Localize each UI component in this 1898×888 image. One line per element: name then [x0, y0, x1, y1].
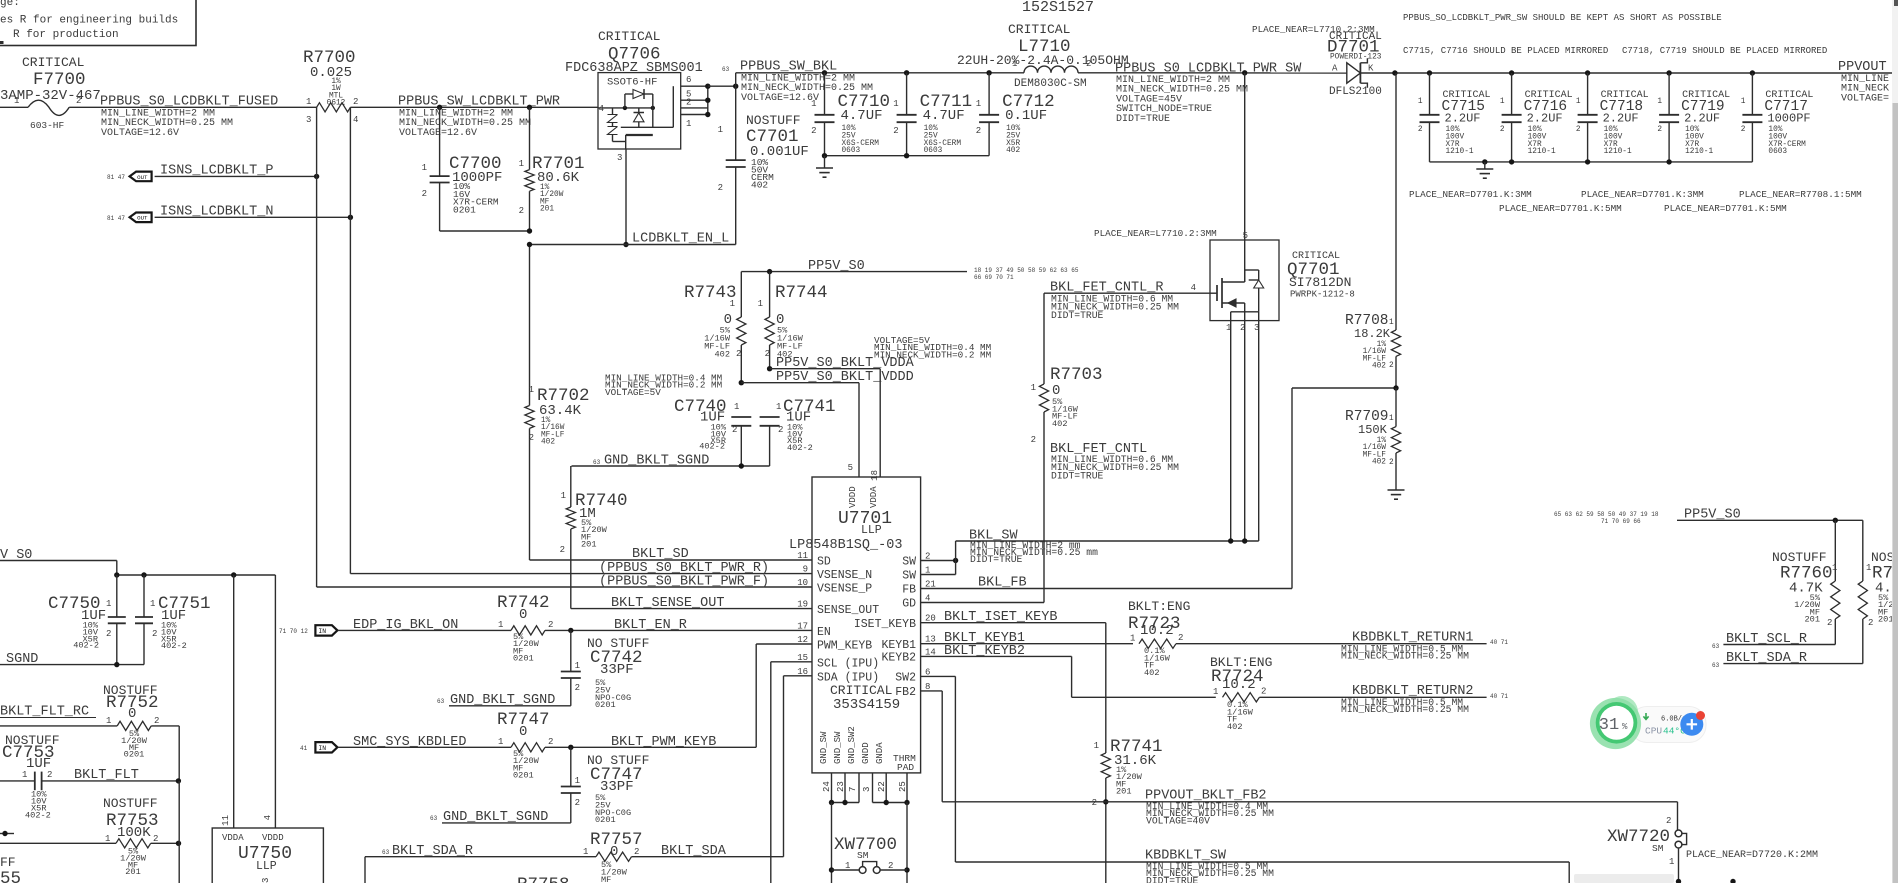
- capacitor C7740: [674, 397, 751, 466]
- net BKLT_SDA label: [661, 844, 727, 859]
- capacitor C7701: [718, 73, 809, 245]
- net BKLT_EN_R label: [614, 618, 687, 633]
- svg-text:A: A: [1332, 64, 1338, 74]
- resistor R7703: [1031, 293, 1103, 602]
- svg-text:81 47: 81 47: [107, 215, 125, 222]
- svg-text:1: 1: [1012, 59, 1017, 69]
- svg-text:PPBUS_S0_LCDBKLT_FUSED: PPBUS_S0_LCDBKLT_FUSED: [100, 95, 278, 110]
- svg-text:1: 1: [1389, 319, 1394, 327]
- resistor R7741: [1092, 623, 1163, 883]
- svg-text:GNDA: GNDA: [875, 742, 885, 764]
- svg-text:SD: SD: [817, 556, 831, 569]
- capacitor C7753: [0, 733, 181, 821]
- svg-text:SI7812DN: SI7812DN: [1289, 275, 1351, 290]
- svg-text:(PPBUS_S0_BKLT_PWR_F): (PPBUS_S0_BKLT_PWR_F): [599, 575, 769, 590]
- svg-text:C7715, C7716 SHOULD BE PLACED: C7715, C7716 SHOULD BE PLACED MIRRORED: [1403, 46, 1608, 56]
- svg-text:IN: IN: [318, 628, 326, 635]
- svg-text:18 19 37 49 50 58 59 62 63 65: 18 19 37 49 50 58 59 62 63 65: [974, 267, 1079, 274]
- svg-text:2: 2: [153, 834, 158, 844]
- svg-text:SM: SM: [1652, 843, 1664, 854]
- net BKLT_KEYB2: [921, 644, 1216, 697]
- svg-text:KEYB1: KEYB1: [881, 639, 916, 652]
- svg-text:1: 1: [1130, 634, 1135, 644]
- svg-text:1: 1: [106, 599, 111, 609]
- jumper XW7700: [829, 803, 910, 884]
- svg-text:10: 10: [797, 578, 808, 588]
- net BKLT_KEYB1: [921, 631, 1133, 646]
- svg-text:SSOT6-HF: SSOT6-HF: [607, 77, 657, 89]
- svg-text:2: 2: [1389, 362, 1394, 370]
- svg-text:402-2: 402-2: [787, 443, 813, 453]
- wire stub left U7750: [0, 831, 14, 836]
- svg-text:17: 17: [797, 621, 808, 631]
- svg-text:2: 2: [1086, 59, 1091, 69]
- net BKLT_SENSE_OUT: [571, 596, 812, 611]
- svg-text:1: 1: [561, 491, 566, 501]
- wire output caps bottom bus: [1430, 159, 1753, 164]
- ground below C7710: [816, 156, 833, 178]
- svg-text:1: 1: [1389, 415, 1394, 423]
- svg-text:4: 4: [263, 815, 273, 820]
- svg-text:GND_SW: GND_SW: [819, 731, 829, 764]
- wire vdd row: [114, 572, 275, 577]
- svg-text:1: 1: [1669, 857, 1674, 867]
- svg-text:FB2: FB2: [895, 686, 916, 699]
- svg-text:2: 2: [548, 620, 553, 630]
- capacitor C7741: [760, 397, 836, 466]
- capacitor C7750: [48, 575, 126, 665]
- svg-text:ge:: ge:: [0, 0, 20, 9]
- svg-text:R7758: R7758: [517, 875, 570, 883]
- svg-text:5: 5: [848, 463, 853, 473]
- capacitor C7747: [561, 747, 650, 825]
- svg-text:402-2: 402-2: [25, 811, 51, 821]
- svg-text:2: 2: [736, 349, 741, 359]
- svg-text:VDDD: VDDD: [262, 833, 284, 843]
- svg-text:2: 2: [1092, 798, 1097, 808]
- net GND_BKLT_SGND c7747: [430, 810, 571, 825]
- net PPBUS_S0_BKLT_PWR_F: [317, 575, 812, 590]
- capacitor C7718: [1576, 70, 1649, 162]
- svg-text:GND_BKLT_SGND: GND_BKLT_SGND: [604, 454, 709, 469]
- inductor L7710: [957, 22, 1129, 90]
- svg-text:SW: SW: [902, 556, 916, 569]
- svg-text:402: 402: [1227, 722, 1242, 732]
- svg-text:CPU: CPU: [1645, 726, 1662, 737]
- svg-text:2.2UF: 2.2UF: [1527, 112, 1563, 126]
- svg-text:BKLT_SDA_R: BKLT_SDA_R: [392, 844, 473, 859]
- net PPBUS_S0_LCDBKLT_FUSED label: [100, 95, 278, 139]
- svg-text:3: 3: [617, 153, 622, 163]
- svg-text:VOLTAGE=5V: VOLTAGE=5V: [605, 387, 661, 398]
- svg-text:DIDT=TRUE: DIDT=TRUE: [1051, 470, 1104, 481]
- svg-text:VSENSE_P: VSENSE_P: [817, 583, 872, 596]
- svg-text:40 71: 40 71: [1490, 639, 1508, 646]
- svg-text:63: 63: [593, 459, 601, 466]
- svg-text:3: 3: [862, 787, 872, 792]
- svg-text:2: 2: [686, 98, 691, 108]
- svg-text:18.2K: 18.2K: [1354, 327, 1391, 341]
- svg-text:1: 1: [893, 99, 898, 109]
- wire C7700-R7701 bottom: [440, 228, 533, 233]
- capacitor C7751: [135, 575, 211, 665]
- capacitor C7712: [976, 70, 1055, 156]
- capacitor C7717: [1741, 70, 1814, 162]
- svg-text:R7703: R7703: [1050, 365, 1103, 385]
- wire GD: [921, 602, 1044, 604]
- net BKLT_ISET_KEYB: [921, 610, 1106, 625]
- svg-text:2: 2: [1576, 126, 1581, 134]
- svg-text:0201: 0201: [595, 815, 616, 825]
- svg-text:15: 15: [797, 653, 808, 663]
- net PPBUS_SW_BKL label: [722, 60, 873, 104]
- net KBDBKLT_SW label: [1145, 849, 1274, 887]
- svg-text:2.2UF: 2.2UF: [1445, 112, 1481, 126]
- net BKLT_FLT label: [74, 768, 139, 783]
- resistor R7708: [1345, 70, 1401, 388]
- wire stub bottom right: [1730, 879, 1735, 884]
- svg-text:DIDT=TRUE: DIDT=TRUE: [970, 554, 1023, 565]
- svg-text:201: 201: [1805, 615, 1820, 625]
- svg-text:VOLTAGE=12.6V: VOLTAGE=12.6V: [101, 128, 179, 139]
- svg-text:PPBUS_SW_LCDBKLT_PWR: PPBUS_SW_LCDBKLT_PWR: [398, 95, 560, 110]
- wire PWM_KEYB to pin12: [756, 644, 812, 747]
- resistor R7701: [519, 105, 585, 231]
- svg-text:LLP: LLP: [256, 860, 277, 873]
- svg-text:PLACE_NEAR=L7710.2:3MM: PLACE_NEAR=L7710.2:3MM: [1094, 228, 1217, 239]
- svg-text:NOSTUFF: NOSTUFF: [746, 113, 801, 128]
- wire FB2 to PPVOUT_BKLT_FB2: [921, 691, 1678, 802]
- svg-text:353S4159: 353S4159: [833, 697, 900, 713]
- svg-text:2.2UF: 2.2UF: [1603, 112, 1639, 126]
- svg-text:18: 18: [870, 470, 880, 481]
- svg-text:402: 402: [1372, 459, 1386, 467]
- net BKLT_FLT_RC label: [0, 705, 96, 720]
- svg-text:16: 16: [797, 667, 808, 677]
- svg-text:GND_BKLT_SGND: GND_BKLT_SGND: [443, 810, 548, 825]
- svg-text:IN: IN: [318, 745, 326, 752]
- svg-text:4.7UF: 4.7UF: [923, 108, 965, 124]
- svg-text:1210-1: 1210-1: [1604, 148, 1632, 156]
- net BKL_FB: [921, 388, 1292, 591]
- svg-text:BKLT_FLT: BKLT_FLT: [74, 768, 139, 783]
- svg-text:VDDA: VDDA: [869, 486, 879, 508]
- wire ISNS_LCDBKLT_N: [155, 215, 353, 220]
- capacitor C7742: [561, 630, 650, 710]
- wire U7750 vddd: [274, 575, 276, 828]
- resistor R7702: [525, 245, 590, 561]
- svg-text:2: 2: [519, 206, 524, 216]
- svg-text:PLACE_NEAR=D7720.K:2MM: PLACE_NEAR=D7720.K:2MM: [1686, 850, 1818, 861]
- svg-text:1: 1: [1657, 98, 1662, 106]
- svg-text:BKLT_SENSE_OUT: BKLT_SENSE_OUT: [611, 596, 724, 611]
- svg-text:SENSE_OUT: SENSE_OUT: [817, 604, 879, 617]
- svg-text:2: 2: [1657, 126, 1662, 134]
- wire PP5V_S0: [741, 269, 967, 274]
- svg-text:1: 1: [1418, 98, 1423, 106]
- svg-text:2: 2: [888, 861, 893, 871]
- op-amp U7750 box: [212, 815, 323, 888]
- svg-text:K: K: [1368, 64, 1374, 74]
- svg-text:1: 1: [498, 737, 503, 747]
- net GND_BKLT_SGND mid: [572, 454, 770, 469]
- note box: [0, 0, 196, 46]
- svg-text:2: 2: [1261, 687, 1266, 697]
- resistor R7753: [0, 781, 181, 883]
- transistor Q7701: [1191, 240, 1355, 333]
- svg-text:1000PF: 1000PF: [1767, 112, 1810, 126]
- svg-text:1: 1: [686, 119, 691, 129]
- svg-text:0.1UF: 0.1UF: [1005, 108, 1047, 124]
- transistor Q7706: [565, 29, 703, 163]
- svg-text:PLACE_NEAR=D7701.K:5MM: PLACE_NEAR=D7701.K:5MM: [1499, 203, 1622, 214]
- svg-text:1: 1: [105, 834, 110, 844]
- svg-text:3: 3: [261, 878, 271, 883]
- svg-text:2: 2: [976, 126, 981, 136]
- net KBDBKLT_RETURN1: [1176, 631, 1508, 662]
- svg-text:0: 0: [519, 607, 527, 623]
- svg-text:2: 2: [548, 737, 553, 747]
- wire PPBUS_S0_LCDBKLT_PWR_SW: [1078, 72, 1347, 74]
- net KBDBKLT_RETURN2: [1259, 684, 1508, 715]
- svg-text:1: 1: [150, 599, 155, 609]
- flag ISNS_LCDBKLT_P: [107, 164, 273, 182]
- svg-text:1: 1: [845, 861, 850, 871]
- svg-text:2: 2: [1418, 126, 1423, 134]
- wire R7700.4 sense: [349, 107, 351, 573]
- capacitor C7711: [893, 70, 972, 156]
- svg-text:2: 2: [1868, 618, 1873, 628]
- resistor R7752: [0, 683, 179, 781]
- svg-text:BKLT_SDA_R: BKLT_SDA_R: [1726, 651, 1807, 666]
- resistor R7742: [338, 593, 812, 664]
- net PP5V_S0 left: [0, 548, 117, 575]
- svg-text:VOLTAGE=12.6V: VOLTAGE=12.6V: [741, 93, 819, 104]
- svg-text:BKLT_PWM_KEYB: BKLT_PWM_KEYB: [611, 735, 716, 750]
- svg-text:2: 2: [154, 716, 159, 726]
- text PLACE_NEAR row1: [1409, 189, 1862, 200]
- wire Q7706 pin3: [623, 149, 628, 247]
- svg-text:4: 4: [1191, 283, 1196, 293]
- svg-text:1: 1: [306, 97, 311, 107]
- resistor R7723: [1128, 599, 1190, 678]
- svg-text:1: 1: [1866, 563, 1871, 573]
- svg-text:1: 1: [583, 847, 588, 857]
- svg-text:2: 2: [529, 433, 534, 443]
- svg-text:66 69 70 71: 66 69 70 71: [974, 274, 1014, 281]
- svg-text:GND_SW2: GND_SW2: [847, 726, 857, 764]
- svg-text:1: 1: [776, 402, 781, 412]
- svg-text:402: 402: [1372, 363, 1386, 371]
- svg-text:9: 9: [803, 565, 808, 575]
- text clipped R7755: [0, 855, 21, 888]
- svg-text:0: 0: [128, 706, 136, 722]
- svg-text:33PF: 33PF: [600, 662, 634, 678]
- svg-text:BKL_FB: BKL_FB: [978, 576, 1027, 591]
- svg-text:41: 41: [300, 745, 308, 752]
- svg-text:1: 1: [575, 661, 580, 671]
- svg-text:DEM8030C-SM: DEM8030C-SM: [1014, 78, 1087, 90]
- net PP5V_S0 right: [1554, 508, 1863, 526]
- svg-text:81 47: 81 47: [107, 174, 125, 181]
- svg-text:VOLTAGE=40V: VOLTAGE=40V: [1146, 815, 1210, 826]
- svg-text:11: 11: [797, 551, 808, 561]
- svg-text:PLACE_NEAR=D7701.K:5MM: PLACE_NEAR=D7701.K:5MM: [1664, 203, 1787, 214]
- svg-text:19: 19: [797, 600, 808, 610]
- text PLACE_NEAR=L7710.2:3MM top: [1252, 24, 1375, 35]
- ground output caps: [1476, 162, 1493, 178]
- svg-text:4.7UF: 4.7UF: [841, 108, 883, 124]
- svg-text:FDC638APZ_SBMS001: FDC638APZ_SBMS001: [565, 61, 703, 76]
- svg-text:2: 2: [811, 126, 816, 136]
- U7701 right pins: [854, 552, 936, 700]
- svg-text:0: 0: [519, 724, 527, 740]
- svg-text:2: 2: [353, 97, 358, 107]
- fuse F7700: [0, 55, 101, 131]
- svg-text:31: 31: [1599, 716, 1619, 735]
- svg-text:402: 402: [1006, 147, 1020, 155]
- resistor R7700: [303, 48, 358, 125]
- wire U7701 gnd pins: [829, 773, 910, 805]
- svg-text:1: 1: [1031, 383, 1036, 393]
- svg-text:GNDD: GNDD: [861, 742, 871, 764]
- svg-text:201: 201: [581, 540, 596, 550]
- net PPBUS_S0_BKLT_PWR_R: [350, 561, 812, 576]
- svg-text:CRITICAL: CRITICAL: [1008, 22, 1070, 37]
- svg-text:PP5V_S0: PP5V_S0: [808, 259, 865, 274]
- svg-text:NOSTUFF: NOSTUFF: [103, 796, 158, 811]
- svg-text:1: 1: [422, 163, 427, 173]
- text PLACE_NEAR row2: [1499, 203, 1787, 214]
- svg-text:VSENSE_N: VSENSE_N: [817, 569, 872, 582]
- svg-text:DIDT=TRUE: DIDT=TRUE: [1146, 875, 1199, 883]
- svg-text:1: 1: [106, 716, 111, 726]
- svg-text:CRITICAL: CRITICAL: [22, 55, 84, 70]
- svg-text:2: 2: [152, 629, 157, 639]
- svg-text:2: 2: [893, 126, 898, 136]
- svg-text:SGND: SGND: [6, 652, 38, 667]
- svg-text:2: 2: [732, 425, 737, 435]
- svg-text:201: 201: [1116, 787, 1131, 797]
- svg-text:402-2: 402-2: [699, 442, 725, 452]
- svg-text:OUT: OUT: [137, 215, 148, 222]
- flag EDP_IG_BKL_ON: [279, 618, 458, 636]
- svg-text:MIN_NECK_WIDTH=0.25 MM: MIN_NECK_WIDTH=0.25 MM: [1341, 651, 1469, 662]
- svg-text:2: 2: [1666, 816, 1671, 826]
- svg-text:BKLT_ISET_KEYB: BKLT_ISET_KEYB: [944, 610, 1057, 625]
- net PP5V_S0 label: [808, 259, 1079, 281]
- jumper XW7720: [1607, 816, 1818, 884]
- svg-text:1: 1: [1832, 563, 1837, 573]
- text PPBUS keep short note: [1403, 13, 1722, 23]
- op-amp U7701 box: [789, 463, 921, 773]
- svg-text:402: 402: [751, 180, 768, 191]
- text PLACE_NEAR=L7710.2:3MM mid: [1094, 228, 1217, 239]
- svg-text:6: 6: [686, 75, 691, 85]
- text R7758 clipped: [517, 875, 570, 888]
- svg-text:1: 1: [14, 96, 19, 106]
- resistor R7743: [684, 272, 746, 383]
- svg-text:1210-1: 1210-1: [1685, 148, 1713, 156]
- svg-text:63: 63: [1712, 643, 1720, 650]
- flag ISNS_LCDBKLT_N: [107, 205, 273, 223]
- svg-text:0201: 0201: [453, 204, 476, 215]
- svg-text:FB: FB: [902, 584, 916, 597]
- svg-text:2: 2: [718, 183, 723, 193]
- net BKL_FET_CNTL_R: [1044, 281, 1210, 321]
- svg-text:63: 63: [437, 698, 445, 705]
- svg-text:ISET_KEYB: ISET_KEYB: [854, 618, 916, 631]
- capacitor C7700: [422, 105, 503, 231]
- svg-text:BKLT_SCL_R: BKLT_SCL_R: [1726, 632, 1807, 647]
- svg-text:OUT: OUT: [137, 174, 148, 181]
- svg-text:2: 2: [1031, 435, 1036, 445]
- svg-text:0: 0: [610, 844, 618, 860]
- svg-text:KEYB2: KEYB2: [881, 652, 916, 665]
- resistor R7747: [338, 710, 756, 781]
- svg-text:SCL (IPU): SCL (IPU): [817, 657, 879, 670]
- svg-text:2: 2: [422, 189, 427, 199]
- flag SMC_SYS_KBDLED: [300, 735, 466, 753]
- wire D7701 cathode rail: [1360, 72, 1898, 74]
- diode D7701: [1327, 31, 1382, 98]
- resistor R7744: [758, 272, 828, 369]
- svg-text:V S0: V S0: [0, 548, 32, 563]
- net PPBUS_S0_LCDBKLT_PWR_SW label: [1115, 62, 1302, 125]
- svg-text:2: 2: [47, 770, 52, 780]
- svg-text:PPVOUT: PPVOUT: [1838, 60, 1887, 75]
- svg-text:402: 402: [1144, 668, 1159, 678]
- net PPBUS_SW_LCDBKLT_PWR label: [398, 95, 560, 139]
- grey overlay bottom: [1574, 874, 1674, 883]
- svg-text:VDDA: VDDA: [222, 833, 244, 843]
- svg-text:2: 2: [778, 425, 783, 435]
- svg-text:PWRPK-1212-8: PWRPK-1212-8: [1290, 290, 1355, 300]
- resistor R7724: [1210, 655, 1272, 732]
- svg-text:10.2: 10.2: [1222, 677, 1256, 693]
- svg-text:0201: 0201: [595, 700, 616, 710]
- svg-text:DIDT=TRUE: DIDT=TRUE: [1051, 310, 1104, 321]
- svg-text:PP5V_S0_BKLT_VDDD: PP5V_S0_BKLT_VDDD: [776, 370, 914, 385]
- svg-text:603-HF: 603-HF: [30, 120, 65, 131]
- svg-text:152S1527: 152S1527: [1022, 0, 1094, 16]
- net BKLT_PWM_KEYB label: [611, 735, 716, 750]
- svg-text:65 63 62 59 58 50 49 37 19 18: 65 63 62 59 58 50 49 37 19 18: [1554, 511, 1659, 518]
- svg-text:GD: GD: [902, 598, 916, 611]
- svg-text:GND_SW: GND_SW: [833, 731, 843, 764]
- svg-text:40 71: 40 71: [1490, 693, 1508, 700]
- svg-text:SW: SW: [902, 570, 916, 583]
- text C7718 C7719 mirrored note: [1622, 46, 1827, 56]
- U7701 bottom pins: [819, 726, 916, 792]
- text 152S1527: [1022, 0, 1094, 16]
- svg-text:1: 1: [1213, 687, 1218, 697]
- svg-text:SW2: SW2: [895, 672, 916, 685]
- svg-text:201: 201: [1878, 615, 1893, 625]
- svg-text:DFLS2100: DFLS2100: [1329, 86, 1382, 98]
- svg-text:SDA (IPU): SDA (IPU): [817, 671, 879, 684]
- svg-text:VDDD: VDDD: [848, 486, 858, 508]
- svg-text:24: 24: [822, 781, 832, 792]
- net BKLT_SD: [530, 547, 813, 562]
- svg-text:SM: SM: [857, 850, 869, 861]
- net BKLT_SCL_R: [1712, 632, 1835, 650]
- net BKL_SW: [921, 529, 1259, 575]
- net PPVOUT_BKLT_FB2 label: [1145, 789, 1274, 827]
- svg-text:MIN_NECK_WIDTH=0.25 MM: MIN_NECK_WIDTH=0.25 MM: [1341, 704, 1469, 715]
- wire PPBUS_SW_BKL: [736, 72, 1024, 74]
- capacitor C7710: [811, 70, 890, 156]
